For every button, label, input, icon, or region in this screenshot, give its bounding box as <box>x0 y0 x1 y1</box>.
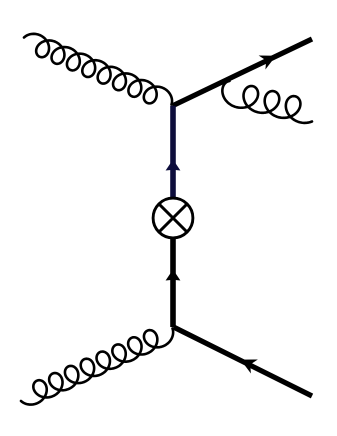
lower propagator <box>170 239 176 327</box>
operator insertion: crossed circle <box>153 198 193 238</box>
arrow on antiquark q2 <box>241 360 258 374</box>
gluon g1 (incoming, top-left) <box>24 34 172 105</box>
radiated gluon g3 <box>222 81 312 123</box>
gluon g2 (incoming, bottom-left) <box>21 329 173 405</box>
arrow on quark q1 <box>259 55 276 69</box>
antiquark q2 (incoming, bottom-right) <box>174 327 313 396</box>
arrow on lower propagator <box>166 270 181 281</box>
upper propagator (navy) <box>170 106 176 201</box>
quark q1 (outgoing, top-right) <box>173 39 313 106</box>
arrow on upper propagator <box>166 160 181 171</box>
